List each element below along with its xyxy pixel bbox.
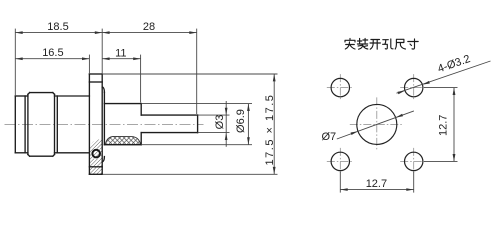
svg-text:11: 11 xyxy=(115,47,126,59)
svg-text:Ø7: Ø7 xyxy=(321,131,336,143)
svg-text:Ø6.9: Ø6.9 xyxy=(235,109,247,133)
svg-text:Ø3: Ø3 xyxy=(214,115,226,130)
svg-text:18.5: 18.5 xyxy=(47,21,68,33)
svg-text:12.7: 12.7 xyxy=(366,178,387,190)
svg-text:16.5: 16.5 xyxy=(42,47,63,59)
svg-text:12.7: 12.7 xyxy=(437,115,449,136)
svg-text:17.5 × 17.5: 17.5 × 17.5 xyxy=(264,94,276,166)
svg-text:28: 28 xyxy=(143,21,155,33)
